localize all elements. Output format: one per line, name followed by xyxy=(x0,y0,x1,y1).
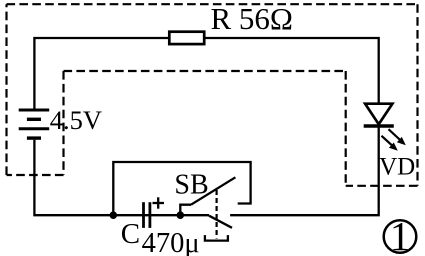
SB actuator bracket xyxy=(205,235,228,241)
svg-text:4.5V: 4.5V xyxy=(50,105,102,135)
short plate 1 xyxy=(27,118,41,121)
wire: resistor right to top-right corner down to LED xyxy=(206,38,379,104)
svg-text:R 56Ω: R 56Ω xyxy=(211,1,293,36)
wire: top horizontal (battery + to resistor to LED) xyxy=(34,38,168,109)
wire: battery - down and bottom wire left section xyxy=(34,140,209,215)
wire: bottom right section to LED cathode xyxy=(230,127,379,215)
capacitor polarity + xyxy=(153,197,165,208)
wire: capacitor bypass loop xyxy=(113,162,250,215)
long plate 2 xyxy=(19,127,50,130)
short plate 2 xyxy=(27,136,41,139)
svg-text:1: 1 xyxy=(390,213,411,256)
long plate 1 xyxy=(19,109,50,112)
svg-text:VD: VD xyxy=(379,153,415,180)
svg-text:C: C xyxy=(121,218,140,250)
LED light arrow 1 xyxy=(389,129,406,145)
svg-text:470μ: 470μ xyxy=(142,228,200,256)
node dot A (left of capacitor) xyxy=(110,211,118,219)
LED cathode bar xyxy=(364,124,394,128)
battery GB (2 cells) xyxy=(19,110,50,138)
figure number circle 1 xyxy=(384,220,417,253)
LED VD: triangle xyxy=(365,104,392,125)
node dot B (right of capacitor) xyxy=(177,211,185,219)
pushbutton SB: upper contact stub and blade xyxy=(180,205,191,216)
dashed boundary outline xyxy=(7,4,418,186)
SB upper blade xyxy=(191,177,235,204)
SB lower blade (in bottom wire) xyxy=(209,216,232,228)
SB actuator dashed link xyxy=(216,190,218,239)
capacitor C plates xyxy=(144,202,150,228)
resistor R xyxy=(169,32,204,44)
LED light arrow 2 xyxy=(382,136,398,151)
svg-text:SB: SB xyxy=(174,170,208,201)
